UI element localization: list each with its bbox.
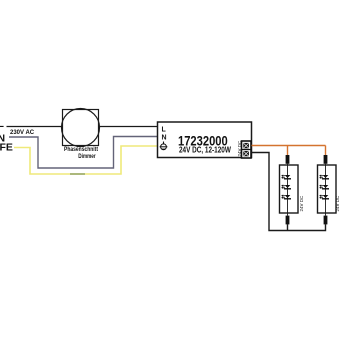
strip2 internal wire xyxy=(325,164,327,216)
svg-text:24V DC: 24V DC xyxy=(299,195,304,212)
strip2 bottom terminal xyxy=(324,216,328,225)
svg-text:24V DC: 24V DC xyxy=(335,195,340,212)
strip1 body xyxy=(280,165,299,213)
LED strip 2 xyxy=(318,155,340,224)
wire 24V return (black) xyxy=(252,153,326,231)
svg-text:L: L xyxy=(0,118,5,130)
wire dimmer to power supply xyxy=(99,126,158,128)
wire FE green stripe xyxy=(70,173,85,175)
output terminal block xyxy=(242,141,252,158)
svg-text:24V DC: 24V DC xyxy=(237,140,242,157)
strip2 body xyxy=(318,165,337,213)
LED D2 xyxy=(281,185,291,190)
wire FE (yellow) to power supply xyxy=(14,146,158,174)
svg-text:Dimmer: Dimmer xyxy=(78,154,96,161)
strip2 top terminal xyxy=(324,155,328,164)
wire +24V (orange) xyxy=(252,146,326,156)
LED D5 xyxy=(319,185,329,190)
strip1 internal wire xyxy=(287,164,289,216)
svg-text:L: L xyxy=(162,127,167,134)
power supply U1 box xyxy=(158,122,252,158)
strip1 bottom terminal xyxy=(286,216,290,225)
LED D1 xyxy=(281,175,291,180)
wire N to power supply xyxy=(9,137,158,169)
pin FE earth symbol xyxy=(160,142,168,150)
svg-text:N: N xyxy=(162,135,167,142)
svg-text:FE: FE xyxy=(0,142,13,154)
svg-text:Phasenschnitt: Phasenschnitt xyxy=(64,147,98,154)
LED D3 xyxy=(281,195,291,200)
LED D6 xyxy=(319,195,329,200)
LED strip 1 xyxy=(280,155,304,224)
dimmer box xyxy=(63,110,99,146)
LED D4 xyxy=(319,175,329,180)
dimmer circle xyxy=(62,109,100,147)
wire L to dimmer xyxy=(7,126,63,128)
svg-text:230V AC: 230V AC xyxy=(10,130,35,136)
strip1 top terminal xyxy=(286,155,290,164)
svg-text:24V DC, 12-120W: 24V DC, 12-120W xyxy=(179,145,231,155)
